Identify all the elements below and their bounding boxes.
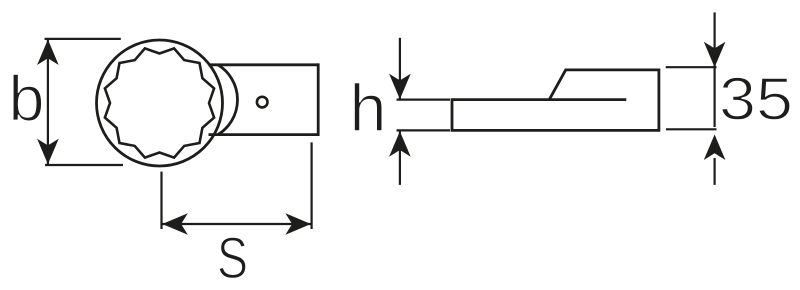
h upper dimension line xyxy=(399,38,401,99)
pin hole xyxy=(257,97,268,108)
h lower dimension line xyxy=(399,132,401,185)
h bottom extension line xyxy=(397,129,451,131)
b top extension line xyxy=(45,38,121,40)
S arrow right xyxy=(285,213,311,235)
35 middle dimension line xyxy=(713,67,715,127)
ring boss arc xyxy=(218,65,237,135)
shank right edge xyxy=(317,63,320,136)
dimension b xyxy=(45,39,123,165)
svg-text:35: 35 xyxy=(719,66,793,133)
35 top extension line xyxy=(666,66,717,68)
h arrow up xyxy=(389,131,411,157)
b arrow down xyxy=(37,139,59,165)
h arrow down xyxy=(389,74,411,100)
35 arrow up xyxy=(704,135,726,161)
35 arrow down xyxy=(704,42,726,67)
S right extension line xyxy=(311,142,313,229)
shank top edge xyxy=(209,63,319,66)
ring outer circle xyxy=(97,40,223,166)
dimension 35 xyxy=(666,12,717,185)
35 lower dimension line xyxy=(713,158,715,185)
svg-text:h: h xyxy=(350,71,387,146)
S dimension line xyxy=(163,223,311,225)
svg-text:b: b xyxy=(9,63,45,135)
35 upper dimension line xyxy=(713,12,715,67)
side view hidden shank top line xyxy=(549,98,626,101)
b arrow up xyxy=(37,40,59,66)
dimension h xyxy=(397,38,451,185)
shank bottom edge xyxy=(209,133,319,136)
svg-text:S: S xyxy=(217,226,248,290)
S left extension line xyxy=(160,172,162,229)
b dimension line xyxy=(47,40,49,164)
h top extension line xyxy=(397,98,451,100)
35 bottom extension line xyxy=(666,128,717,130)
side view outline xyxy=(452,70,659,130)
ring 12-point inner profile xyxy=(105,48,214,157)
S arrow left xyxy=(162,213,188,235)
dimension S xyxy=(162,142,312,229)
b bottom extension line xyxy=(45,164,123,166)
